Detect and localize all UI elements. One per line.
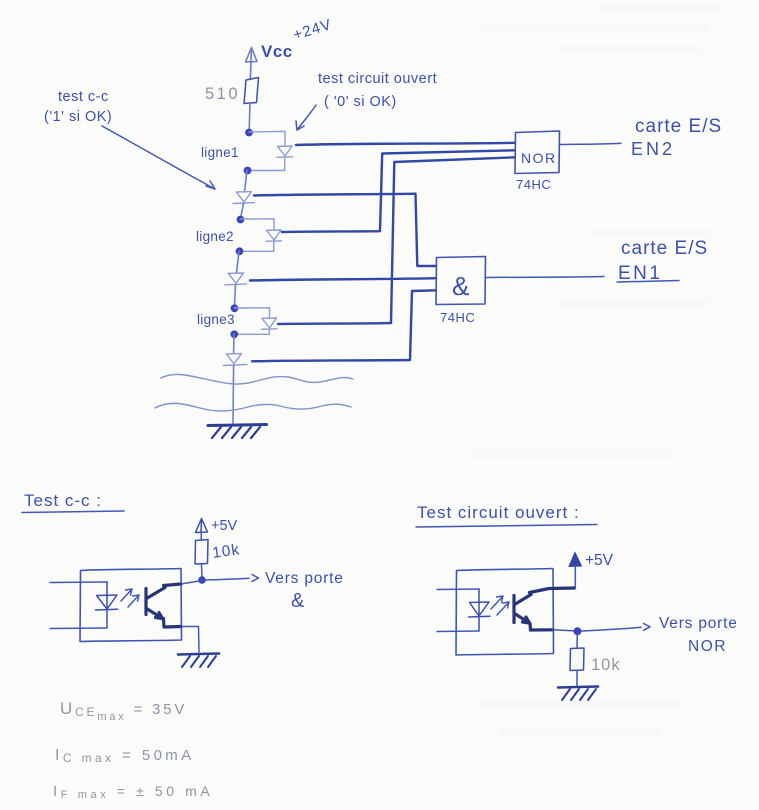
+5V supply arrow (right) [569, 552, 614, 569]
light arrows (left) [121, 589, 139, 607]
svg-text:+5V: +5V [211, 518, 238, 534]
wire NOR output to EN2 [560, 143, 622, 144]
wire D1 to node C [241, 204, 244, 217]
svg-text:NOR: NOR [521, 150, 557, 166]
node G [198, 576, 206, 584]
wire LED2 to NOR input 2 [282, 150, 515, 232]
LED ligne2 [266, 230, 282, 241]
label Vers porte & [265, 570, 344, 612]
wire D1 to AND gate input 1 [254, 194, 436, 266]
wire D2 to node E [235, 285, 236, 305]
wire node C to LED2 [241, 219, 275, 230]
wire node H to resistor R3 [576, 634, 578, 648]
wire +5V to collector (right) [574, 567, 576, 589]
torn paper wavy line bottom [155, 403, 351, 411]
svg-text:('1' si OK): ('1' si OK) [44, 109, 112, 125]
NOR gate U1 [515, 131, 560, 174]
wire node D to diode D2 [237, 251, 240, 273]
label Vcc +24V [261, 16, 334, 61]
+5V supply arrow (left) [196, 518, 238, 534]
wire resistor R3 to ground (right) [576, 671, 578, 687]
wire LED3 to NOR input 3 [278, 157, 515, 324]
node H [574, 627, 582, 635]
wire LED1 to node B [248, 158, 285, 171]
node E [231, 304, 239, 312]
resistor R3 (10k) [570, 648, 584, 671]
opto transistor Q1 (left) [146, 584, 181, 627]
svg-text:Test c-c :: Test c-c : [24, 491, 102, 510]
arrow test c-c to diode D1 [102, 126, 215, 189]
wire Vcc arrow to resistor R1 [249, 62, 252, 79]
opto LED input wire bottom (left) [50, 627, 107, 630]
wire node F to diode D3 [233, 334, 235, 354]
svg-text:74HC: 74HC [516, 177, 551, 192]
opto LED input wire top (left) [50, 581, 107, 584]
wire node E to LED3 [235, 308, 270, 318]
title Test circuit ouvert [416, 503, 597, 527]
LED ligne1 [277, 146, 293, 157]
ground (right opto) [558, 687, 598, 701]
svg-text:EN2: EN2 [631, 139, 675, 159]
svg-text:carte E/S: carte E/S [635, 116, 722, 137]
wire resistor R1 to node A [248, 104, 251, 130]
node D [236, 247, 244, 255]
wire resistor R2 to node G [201, 564, 204, 577]
wire +5V to resistor R2 [200, 533, 202, 541]
svg-text:&: & [452, 271, 469, 301]
svg-text:Vers porte: Vers porte [659, 615, 738, 632]
wire node H to gate NOR output [582, 624, 651, 632]
diode D3 [224, 354, 248, 366]
svg-text:10k: 10k [591, 656, 621, 674]
opto LED input wire bottom (right) [437, 630, 479, 633]
title Test c-c [22, 491, 124, 513]
opto LED DL2 (right) [469, 589, 491, 631]
label Vers porte NOR [659, 615, 738, 655]
wire node G to gate & output [205, 575, 259, 582]
LED ligne3 [262, 318, 278, 329]
wire LED1 to NOR input 1 [296, 143, 515, 145]
optocoupler U3 package [80, 569, 182, 642]
opto LED DL1 (left) [96, 582, 118, 628]
svg-text:carte E/S: carte E/S [621, 238, 708, 259]
svg-text:Vers porte: Vers porte [265, 570, 344, 587]
optocoupler U4 package [456, 569, 554, 656]
svg-text:test circuit ouvert: test circuit ouvert [318, 71, 437, 87]
wire opto emitter to node H [553, 630, 577, 631]
wire opto emitter to ground (left) [181, 627, 199, 653]
svg-text:test c-c: test c-c [58, 89, 109, 105]
wire D3 to AND gate input 3 [252, 290, 436, 361]
svg-text:74HC: 74HC [440, 310, 475, 325]
svg-text:Test circuit ouvert :: Test circuit ouvert : [417, 503, 580, 522]
ground (main chain) [208, 425, 267, 439]
svg-text:ligne2: ligne2 [196, 229, 234, 244]
svg-text:&: & [291, 590, 305, 612]
underline EN1 [617, 281, 679, 283]
wire LED3 to node F [234, 330, 269, 335]
svg-text:510: 510 [205, 85, 240, 103]
AND gate U2 [436, 257, 486, 305]
node C [237, 216, 245, 224]
svg-text:ligne3: ligne3 [197, 312, 235, 327]
Vcc supply arrow [246, 48, 258, 63]
svg-text:Vcc: Vcc [261, 42, 293, 61]
opto transistor Q2 (right) [514, 588, 575, 630]
wire node B to diode D1 [245, 170, 248, 192]
node F [230, 330, 238, 338]
wire D3 to ground [232, 366, 235, 424]
annotation test c-c [44, 89, 112, 125]
wire LED2 to node D [240, 242, 274, 252]
svg-text:NOR: NOR [688, 638, 727, 655]
svg-text:( '0' si OK): ( '0' si OK) [324, 94, 397, 110]
wire opto collector to node G [181, 581, 202, 585]
annotation test circuit ouvert [318, 71, 437, 110]
resistor R1 [244, 78, 259, 104]
diode D1 [233, 192, 255, 204]
svg-text:ligne1: ligne1 [201, 145, 239, 160]
resistor R2 (10k) [195, 540, 208, 565]
torn paper wavy line top [161, 374, 353, 384]
light arrows (right) [491, 596, 509, 615]
wire node A to LED1 [249, 131, 285, 146]
wire D2 to AND gate input 2 [250, 278, 436, 280]
wire AND output to EN1 [486, 277, 605, 278]
svg-text:+5V: +5V [585, 552, 614, 569]
opto LED input wire top (right) [437, 588, 479, 591]
node A [245, 129, 253, 137]
ground (left opto) [178, 654, 219, 668]
node B [244, 167, 252, 175]
arrow test circuit ouvert to LED1 [296, 105, 316, 130]
diode D2 [225, 273, 247, 285]
